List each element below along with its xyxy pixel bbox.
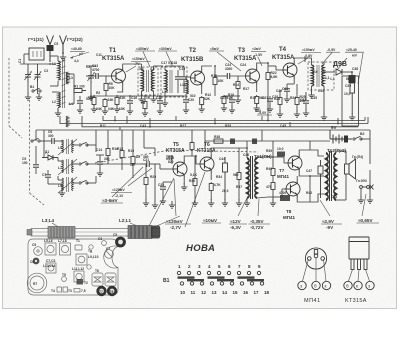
transistor T7 dark ring: [96, 286, 106, 296]
IFT1 core: [147, 70, 149, 92]
T8 collector: [296, 176, 298, 180]
leader arrow to L1: [70, 52, 89, 59]
small circles on board: [87, 245, 93, 269]
IFT1 secondary winding: [151, 70, 153, 91]
supply drop to T5 stage: [144, 130, 155, 156]
antenna symbol 1: [47, 36, 54, 63]
ground under antenna 2: [60, 53, 66, 60]
coupling winding L3: [66, 72, 68, 84]
leader diag long 2: [185, 172, 205, 227]
coil square mid: [46, 263, 56, 273]
dashed ferrite antenna boundary: [9, 58, 22, 138]
capacitor C22: [157, 101, 163, 103]
T2 collector wire: [202, 66, 212, 69]
T8 base wire: [268, 189, 286, 197]
rod left tip component: [27, 230, 32, 236]
coil can L9,L10 square: [76, 254, 87, 265]
board notch arc: [104, 246, 118, 268]
input transformer L1 winding: [58, 61, 60, 80]
dashed screen boundary of oscillator unit: [30, 100, 45, 205]
ground under trimmer: [88, 93, 94, 100]
MP41 pin e: [298, 281, 306, 289]
electrolytic C44: [223, 157, 228, 200]
variable capacitor C1: [24, 70, 31, 82]
speaker Gr: [345, 159, 356, 179]
capacitor C6: [40, 140, 52, 142]
driver transformer Tr1 primary: [247, 158, 249, 198]
capacitor across battery dark: [344, 136, 348, 143]
capacitor C23: [160, 187, 166, 189]
IFT3 secondary winding: [322, 65, 324, 86]
dark electrolytic near T7: [277, 152, 285, 157]
T6 emitter: [210, 173, 212, 180]
row2 wiper bars: [187, 279, 264, 281]
leader 5mV to T3 base: [217, 52, 241, 71]
IFT3 core: [317, 65, 319, 87]
pot body: [350, 72, 355, 114]
electrolytic C47: [318, 160, 323, 198]
AGC rail under T1/T2: [94, 96, 186, 100]
coupling winding L15 to T2: [186, 80, 188, 94]
T7 base wire: [270, 157, 288, 163]
resistor R8: [143, 100, 147, 110]
AGC bus wire B: [60, 116, 368, 124]
MP41 pin b: [312, 281, 320, 289]
battery B Krona: [330, 135, 352, 144]
resistor R21 under T3: [255, 95, 259, 105]
rod end cap: [151, 226, 160, 239]
grounds under T1 stage: [91, 105, 97, 112]
T3 emitter wire: [256, 85, 258, 92]
trim cap C9 circle: [34, 247, 43, 256]
transistor T2: [191, 69, 205, 87]
resistor R15: [120, 149, 124, 159]
resistor R32 between T5 T6 labels: [191, 130, 193, 142]
capacitor C7: [45, 175, 51, 177]
resistor R1 100: [74, 89, 86, 93]
Tr1 wires: [247, 148, 270, 200]
dark cap on rail 2: [252, 139, 257, 145]
lower winding L2: [58, 92, 60, 108]
bus drop to battery: [365, 117, 370, 139]
transistor T8: [286, 180, 300, 198]
capacitor C33 under T4 emitter: [284, 89, 290, 91]
T1 emitter wire: [117, 85, 123, 92]
resistor R29: [144, 176, 148, 186]
MP41 pin leaders: [303, 258, 327, 281]
pot R7 big circle: [27, 273, 47, 293]
IFT3 primary winding: [312, 65, 314, 86]
dashed IF screen boundary diagonal: [95, 150, 258, 163]
oscillator coil L5/L6 pair: [58, 139, 77, 155]
lower coupling winding L4: [66, 116, 68, 127]
ground under L2: [55, 109, 61, 116]
switch V1 row2 contacts: [180, 282, 263, 285]
wire T5 base bias: [140, 156, 172, 201]
resistor R41 bias divider: [271, 181, 275, 191]
Tr2 wires: [336, 151, 346, 200]
ground under C2: [36, 93, 42, 100]
KT315A pin b: [344, 281, 352, 289]
capacitor C31: [303, 101, 309, 103]
junction dots top: [49, 52, 353, 97]
capacitor C21 to T5 base: [147, 161, 149, 167]
small circle right notch: [102, 241, 107, 246]
band switch pole contacts: [79, 142, 88, 146]
transistor T8 dark ring: [107, 286, 117, 296]
Tr1 core: [251, 156, 253, 199]
transistor T4: [283, 61, 297, 79]
resistor R4: [103, 98, 107, 108]
T6 collector: [211, 148, 247, 155]
wires from switch to mixer: [87, 145, 140, 183]
capacitor C26: [229, 100, 235, 102]
dark small cap left: [33, 258, 40, 265]
IFT2 trim cap C19: [183, 70, 185, 76]
wire to C13: [86, 75, 96, 77]
output transformer Tr2 primary: [326, 153, 328, 200]
9V supply bus: [36, 129, 370, 131]
capacitor C24: [227, 73, 229, 79]
resistor R40 bias divider: [271, 167, 275, 177]
ferrite rod: [31, 229, 160, 237]
dark ring component top right of board: [115, 237, 126, 248]
volume pot dark blob: [349, 75, 356, 83]
capacitor C14 osc: [97, 162, 103, 164]
dark cap on rail 1: [230, 139, 235, 145]
capacitor C13: [96, 73, 98, 79]
resistor R33: [209, 182, 213, 192]
transistor T2 dark: [77, 279, 84, 285]
T2 emitter wire: [201, 87, 203, 94]
wire from box to tuning caps: [20, 54, 56, 64]
oscillator coil L7/L8 pair: [58, 159, 77, 175]
resistor R6: [115, 96, 119, 106]
resistor R22 T3 load: [266, 71, 270, 81]
transistor T7: [288, 154, 302, 172]
osc block wiring: [36, 140, 78, 190]
extra top wires: [36, 127, 330, 145]
supply wire to mid tap: [310, 176, 324, 202]
transistor T5: [173, 160, 187, 178]
resistor R23: [278, 96, 282, 106]
shunt capacitor C10: [79, 96, 81, 100]
T5 collector to T6 base: [184, 156, 200, 164]
resistor R38 on rail: [214, 139, 223, 143]
T5 emitter: [183, 178, 185, 184]
capacitor C5 (dark blob): [47, 45, 54, 51]
IFT3 wires: [305, 58, 324, 114]
capacitor C28: [267, 99, 273, 101]
leader diag long 1: [148, 178, 174, 228]
wires trimmer: [86, 66, 96, 94]
diode D1: [42, 155, 58, 160]
rod winding L3,L4: [48, 227, 75, 239]
pot frame box: [342, 76, 359, 126]
IF transformer 3 dashed shield: [308, 62, 334, 90]
junction dots mid: [171, 147, 311, 177]
IFT2 winding: [165, 70, 167, 92]
IFT2 capacitor C18: [177, 70, 179, 76]
IFT2 core: [170, 70, 172, 93]
bias rail above Tr1: [205, 141, 330, 157]
capacitor C16: [127, 101, 133, 103]
T7 collector to Tr2 top: [299, 150, 324, 156]
KT315A pin e: [366, 281, 374, 289]
ground under C1: [25, 93, 31, 100]
right edge wires: [361, 139, 370, 197]
T3 collector wire: [257, 63, 268, 67]
resistor R36: [237, 171, 241, 181]
diode D9V: [324, 71, 335, 73]
resistor R30: [193, 177, 197, 187]
variable capacitor C2: [34, 70, 41, 82]
transistor T3: [246, 67, 260, 85]
transistor T1: [112, 67, 126, 85]
IF transformer 2 dashed shield: [161, 67, 187, 97]
switch V2: [353, 136, 362, 140]
resistor R18: [131, 155, 135, 165]
dark electrolytic near T8: [280, 195, 290, 201]
rod winding L2,L1: [128, 226, 152, 239]
IFT2 wires: [165, 66, 184, 100]
resistor R10 T2 load: [213, 76, 217, 86]
resistor R13: [222, 95, 226, 105]
T8 emitter to Tr2 bottom: [297, 194, 324, 202]
supply bus wire C: [82, 116, 358, 127]
wire C13 to T1 base: [98, 75, 111, 77]
Tr2 core: [330, 151, 332, 201]
switch V1 row1 contacts: [177, 271, 260, 274]
fraction bars under measurement labels: [70, 51, 379, 224]
KT315A pin leaders: [349, 270, 370, 282]
switch contact B1 osc: [31, 138, 40, 142]
Tr1 secondary: [255, 158, 257, 198]
T4 emitter wire: [293, 79, 295, 84]
core hatching: [62, 58, 66, 108]
T4 collector wire: [294, 58, 305, 62]
wires windings: [50, 56, 58, 112]
wire L4 to R1: [69, 74, 75, 104]
T7 emitter join: [299, 172, 310, 176]
T1 collector wire: [123, 64, 138, 67]
row1 wiper bars: [178, 276, 255, 278]
Tr2 secondary: [334, 153, 336, 200]
resistor R12 under T2: [200, 96, 204, 106]
resistor R25 under T4: [295, 96, 299, 106]
bus vertical connectors: [115, 96, 338, 127]
antenna symbol 2: [60, 36, 67, 54]
wire C24 to T3 base: [230, 75, 246, 77]
capacitor C20 under L15: [183, 100, 189, 102]
wire T2 to C24: [215, 75, 227, 77]
AGC bus wire A: [103, 116, 365, 121]
IF transformer 1 dashed shield: [138, 67, 158, 95]
small parts row: [57, 287, 80, 292]
wires caps to ground: [28, 64, 38, 94]
antenna input box: [29, 48, 44, 60]
junction dots on buses: [114, 120, 339, 128]
KT315A pin k: [354, 281, 362, 289]
MP41 pinout body: [305, 248, 326, 269]
IFT1 wires: [138, 64, 163, 96]
leader line to T5: [152, 179, 180, 228]
wire T3 to T4 base: [268, 66, 283, 70]
trimmer capacitor C3: [87, 71, 94, 83]
transistor T6: [200, 155, 214, 173]
PCB board outline: [28, 239, 118, 295]
grounds mid row: [152, 201, 158, 208]
oscillator coil L9/L10 pair: [58, 177, 77, 193]
resistor R14: [236, 80, 240, 90]
IFT1 primary winding: [142, 70, 144, 91]
resistor R16 osc: [106, 147, 110, 157]
MP41 pin k: [322, 281, 330, 289]
resistor R5 under T1 base: [104, 82, 108, 92]
band switch contact B1: [32, 88, 41, 92]
KT315A pinout body: [349, 237, 369, 270]
resistor R3: [92, 96, 96, 106]
